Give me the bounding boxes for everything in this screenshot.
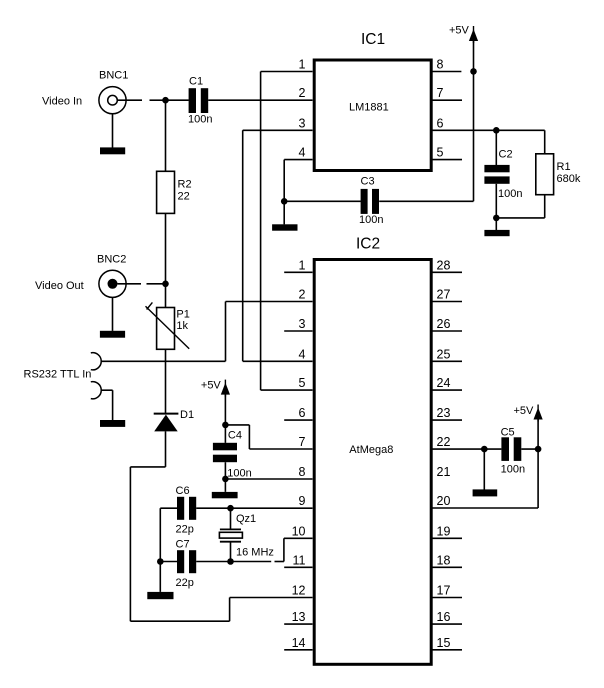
wire elbow up to IC2 pin2 row — [225, 302, 227, 362]
capacitor C2 plate1 — [484, 165, 509, 172]
wire C7 to crystal bottom — [196, 561, 271, 563]
wire +5V down to pin8 junction — [473, 41, 475, 72]
wire IC1 pin1 to IC2 pin5 vertical — [260, 72, 262, 391]
svg-text:22: 22 — [437, 435, 451, 449]
capacitor C3 plate1 — [361, 189, 368, 214]
capacitor C6 plate1 — [177, 497, 184, 520]
svg-text:7: 7 — [437, 86, 444, 100]
svg-text:C6: C6 — [176, 485, 190, 497]
transistor IC2 AtMega8 body — [314, 260, 431, 665]
wire IC1 pin5 stub — [432, 159, 462, 161]
svg-text:D1: D1 — [180, 409, 194, 421]
wire junction down to ground — [283, 201, 285, 224]
capacitor C6 plate2 — [189, 497, 196, 520]
wire C1 to IC1 pin2 — [208, 99, 312, 101]
wire IC2 pin18 stub — [432, 566, 462, 568]
wire node A down to R2 — [165, 100, 167, 171]
wire C6 left — [160, 507, 177, 509]
node B junction — [162, 281, 169, 288]
junction pin6 C2 — [493, 127, 500, 134]
svg-text:+5V: +5V — [201, 380, 222, 392]
wire IC1 pin3 — [243, 129, 313, 131]
wire IC1 pin4 — [284, 159, 312, 161]
wire IC2 pin11 stub — [284, 566, 312, 568]
op-amp U1 IC1 LM1881 body — [314, 60, 431, 171]
svg-text:24: 24 — [437, 376, 451, 390]
wire to IC2 pin 7 — [249, 448, 312, 450]
svg-text:12: 12 — [292, 584, 306, 598]
wire C2 bottom — [495, 184, 497, 230]
svg-text:+5V: +5V — [514, 405, 535, 417]
svg-text:14: 14 — [292, 636, 306, 650]
svg-text:22p: 22p — [176, 524, 194, 536]
svg-text:R2: R2 — [178, 179, 192, 191]
svg-text:5: 5 — [437, 146, 444, 160]
svg-text:2: 2 — [299, 288, 306, 302]
junction crystal bottom — [227, 558, 234, 565]
wire RS232 to elbow — [101, 360, 225, 362]
svg-text:AtMega8: AtMega8 — [349, 444, 393, 456]
power +5V arrow right — [534, 405, 543, 422]
wire IC2 pin28 stub — [432, 271, 462, 273]
wire C2 top — [495, 130, 497, 165]
wire node A to C1 — [166, 99, 189, 101]
capacitor C5 plate1 — [501, 437, 509, 461]
svg-text:RS232 TTL In: RS232 TTL In — [24, 369, 92, 381]
svg-text:28: 28 — [437, 258, 451, 272]
wire pin6 to R1 corner — [544, 130, 546, 154]
wire crystal bottom to elbow seg2 — [275, 561, 284, 563]
svg-text:Qz1: Qz1 — [236, 513, 256, 525]
junction C4 ground pin8 — [222, 476, 229, 483]
svg-text:8: 8 — [437, 58, 444, 72]
wire IC2 pin6 stub — [284, 419, 312, 421]
wire IC1 pin6 — [432, 129, 545, 131]
svg-text:21: 21 — [437, 465, 451, 479]
wire loop up to pin12 row — [229, 598, 231, 622]
wire BNC2 to node B seg1 — [118, 283, 142, 285]
wire loop down left side — [129, 467, 131, 621]
wire IC2 pin14 stub — [284, 649, 312, 651]
junction pin4 C3 ground — [281, 198, 288, 205]
svg-text:10: 10 — [292, 524, 306, 538]
wire IC2 pin24 stub — [432, 389, 462, 391]
svg-text:C4: C4 — [228, 430, 242, 442]
RS232 TTL In upper connector arc — [91, 353, 101, 370]
wire IC2 pin17 stub — [432, 597, 462, 599]
wire IC2 pin19 stub — [432, 537, 462, 539]
junction pin8 +5V — [470, 68, 477, 75]
ground under crystal caps — [147, 592, 173, 599]
wire IC2 pin1 stub — [284, 271, 312, 273]
wire C3 right — [379, 200, 473, 202]
wire to IC2 pin 5 — [261, 389, 313, 391]
svg-text:1k: 1k — [176, 320, 188, 332]
wire R1 bottom to C2 junction — [496, 217, 544, 219]
svg-text:22p: 22p — [176, 577, 194, 589]
svg-text:R1: R1 — [557, 161, 571, 173]
svg-text:BNC2: BNC2 — [97, 254, 126, 266]
wire to IC2 pin 20 — [432, 507, 538, 509]
diode D1 cathode bar — [154, 413, 179, 415]
junction C6 C7 rail — [157, 558, 164, 565]
svg-text:15: 15 — [437, 636, 451, 650]
wire to IC2 pin 4 — [243, 360, 313, 362]
wire IC1 pin8 stub — [432, 71, 461, 73]
wire junction to C3 — [284, 200, 361, 202]
wire IC2 pin27 stub — [432, 301, 462, 303]
potentiometer P1 wiper diagonal — [146, 306, 190, 348]
svg-text:IC2: IC2 — [356, 236, 380, 253]
wire IC2 pin15 stub — [432, 649, 462, 651]
svg-text:IC1: IC1 — [361, 31, 385, 48]
svg-text:6: 6 — [437, 116, 444, 130]
svg-text:25: 25 — [437, 347, 451, 361]
svg-text:3: 3 — [299, 317, 306, 331]
junction C2 R1 ground — [493, 215, 500, 222]
wire loop bottom — [130, 620, 229, 622]
svg-text:9: 9 — [299, 494, 306, 508]
svg-text:3: 3 — [299, 116, 306, 130]
wire elbow down to pin7 row — [248, 425, 250, 449]
svg-text:1: 1 — [299, 58, 306, 72]
BNC2 connector — [99, 270, 126, 297]
ground under C2 — [484, 230, 509, 236]
svg-text:680k: 680k — [557, 173, 581, 185]
wire to IC2 pin 8 — [225, 478, 312, 480]
ground under C5 — [473, 489, 498, 496]
svg-text:16 MHz: 16 MHz — [236, 547, 274, 559]
capacitor C7 plate1 — [177, 550, 184, 573]
wire IC2 pin16 stub — [432, 623, 462, 625]
ground under RS232 — [100, 420, 125, 427]
power +5V arrow top — [469, 26, 478, 43]
svg-text:20: 20 — [437, 494, 451, 508]
capacitor C4 plate2 — [213, 455, 237, 463]
capacitor C4 plate1 — [213, 443, 237, 451]
wire +5V down to C4 — [224, 394, 226, 443]
svg-text:7: 7 — [299, 435, 306, 449]
svg-text:4: 4 — [299, 347, 306, 361]
svg-text:P1: P1 — [176, 309, 189, 321]
ground under IC1 — [272, 224, 297, 230]
wire IC2 pin26 stub — [432, 330, 462, 332]
svg-text:16: 16 — [437, 610, 451, 624]
svg-text:26: 26 — [437, 317, 451, 331]
wire D1 down — [165, 431, 167, 467]
svg-text:4: 4 — [299, 146, 306, 160]
svg-text:100n: 100n — [359, 214, 383, 226]
capacitor C2 plate2 — [484, 176, 509, 183]
resistor R2 — [157, 171, 175, 213]
wire IC1 pin7 stub — [432, 99, 462, 101]
wire loop left — [130, 466, 165, 468]
potentiometer P1 wiper tick — [147, 302, 153, 309]
wire IC2 pin23 stub — [432, 419, 462, 421]
wire IC2 pin3 stub — [284, 330, 312, 332]
wire C5 right to junction — [521, 448, 538, 450]
svg-text:Video Out: Video Out — [35, 280, 84, 292]
svg-text:8: 8 — [299, 465, 306, 479]
wire BNC1 to node A seg1 — [118, 99, 143, 101]
wire BNC1 to node A seg2 — [150, 99, 166, 101]
wire BNC2 ground stem — [112, 297, 114, 331]
svg-text:LM1881: LM1881 — [349, 102, 389, 114]
wire elbow up to pin10 row — [283, 538, 285, 561]
crystal Qz1 — [219, 508, 242, 561]
wire IC1 pin4 elbow down — [283, 160, 285, 202]
wire IC2 pin13 stub — [284, 623, 312, 625]
svg-text:100n: 100n — [188, 114, 212, 126]
svg-text:C7: C7 — [176, 539, 190, 551]
junction crystal top — [227, 505, 234, 512]
svg-text:17: 17 — [437, 584, 451, 598]
svg-text:+5V: +5V — [449, 25, 470, 37]
svg-text:C2: C2 — [499, 149, 513, 161]
wire R2 to node B — [165, 213, 167, 307]
svg-text:5: 5 — [299, 376, 306, 390]
junction +5V C4 pin7 — [222, 422, 229, 429]
svg-text:C1: C1 — [189, 76, 203, 88]
ground under C4 — [212, 492, 238, 498]
svg-text:6: 6 — [299, 406, 306, 420]
wire IC1 pin1 — [261, 71, 313, 73]
RS232 lower connector arc — [91, 382, 101, 399]
capacitor C1 plate1 — [189, 88, 196, 113]
wire R1 bottom down — [544, 195, 546, 218]
svg-text:Video In: Video In — [42, 96, 82, 108]
wire BNC2 to node B seg2 — [147, 283, 166, 285]
svg-text:23: 23 — [437, 406, 451, 420]
wire pin8 junction down to C3 row — [473, 71, 475, 201]
junction pin22 C5 ground — [481, 446, 488, 453]
potentiometer P1 body — [157, 308, 175, 350]
node A junction — [162, 97, 169, 104]
capacitor C5 plate2 — [514, 437, 522, 461]
BNC1 connector — [99, 87, 126, 114]
capacitor C7 plate2 — [189, 550, 196, 573]
svg-text:C3: C3 — [361, 176, 375, 188]
wire C6 crystal to IC2 pin 9 — [196, 507, 312, 509]
wire IC2 pin25 stub — [432, 360, 462, 362]
svg-text:11: 11 — [293, 553, 306, 567]
wire to IC2 pin 10 — [284, 537, 313, 539]
svg-text:22: 22 — [178, 191, 190, 203]
svg-text:C5: C5 — [501, 427, 515, 439]
wire P1 down to D1 — [165, 349, 167, 413]
capacitor C1 plate2 — [201, 88, 208, 113]
ground under BNC2 — [100, 331, 125, 338]
wire junction down to pin20 row — [537, 449, 539, 508]
wire C4 down — [224, 462, 226, 492]
capacitor C3 plate2 — [372, 189, 379, 214]
wire to IC2 pin 12 — [230, 597, 313, 599]
wire ground elbow down — [112, 390, 114, 420]
svg-text:2: 2 — [299, 86, 306, 100]
resistor R1 — [536, 154, 554, 195]
wire IC1 pin3 to IC2 pin4 vertical — [242, 130, 244, 361]
svg-text:100n: 100n — [501, 464, 525, 476]
svg-text:27: 27 — [437, 288, 451, 302]
wire +5V arrow to junction — [537, 419, 539, 449]
svg-text:BNC1: BNC1 — [99, 70, 128, 82]
svg-text:100n: 100n — [498, 188, 522, 200]
wire to IC2 pin 2 — [226, 301, 313, 303]
svg-text:100n: 100n — [227, 468, 251, 480]
svg-text:13: 13 — [292, 610, 306, 624]
svg-text:19: 19 — [437, 524, 451, 538]
wire junction right — [225, 424, 249, 426]
wire C6 C7 ground rail — [159, 508, 161, 592]
diode D1 triangle — [154, 415, 178, 432]
power +5V arrow mid — [221, 380, 230, 397]
wire IC2 pin22 to C5 — [432, 448, 501, 450]
svg-text:18: 18 — [437, 553, 451, 567]
ground under BNC1 — [100, 147, 125, 154]
wire C5 ground drop — [483, 449, 485, 489]
svg-text:1: 1 — [299, 258, 306, 272]
wire BNC1 ground stem — [112, 114, 114, 148]
wire lower arc to ground elbow — [101, 389, 113, 391]
wire C7 left — [160, 561, 177, 563]
junction C5 +5V pin20 — [535, 446, 542, 453]
